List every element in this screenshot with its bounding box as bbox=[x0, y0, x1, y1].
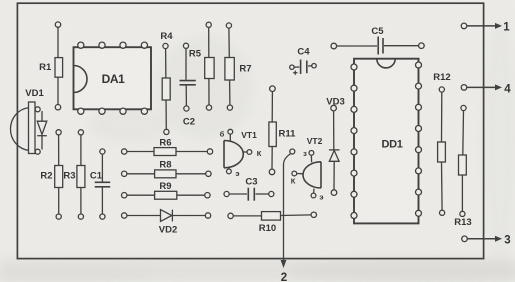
DD1 right pads bbox=[416, 62, 422, 216]
resistor R3 bbox=[63, 130, 84, 220]
resistor R11 bbox=[269, 86, 296, 175]
op-amp IC DA1 bbox=[74, 47, 152, 109]
digital IC DD1 bbox=[354, 59, 419, 224]
photodiode VD1 bbox=[10, 88, 46, 154]
resistor R12 bbox=[433, 72, 450, 215]
DA1 top pads bbox=[78, 42, 148, 48]
resistor R1 bbox=[39, 22, 62, 110]
wire to pin 2 with pad bbox=[281, 149, 295, 282]
DD1 left pads bbox=[351, 64, 357, 219]
resistor R4 bbox=[160, 31, 173, 134]
capacitor C2 bbox=[180, 43, 196, 127]
resistor R7 bbox=[225, 23, 252, 110]
DA1 bottom pads bbox=[78, 108, 148, 114]
pad 4 with arrow bbox=[461, 84, 511, 96]
pad 1 with arrow bbox=[461, 22, 510, 34]
resistor R5 bbox=[189, 22, 214, 110]
capacitor C3 bbox=[224, 177, 274, 201]
resistor R8 bbox=[122, 160, 212, 178]
capacitor C4 bbox=[290, 47, 317, 75]
transistor VT2 bbox=[291, 136, 324, 202]
diode VD3 bbox=[326, 97, 344, 196]
diode VD2 bbox=[122, 210, 211, 236]
resistor R2 bbox=[40, 130, 62, 220]
pad 3 with arrow bbox=[462, 234, 511, 246]
capacitor C1 bbox=[90, 149, 110, 219]
resistor R10 bbox=[228, 212, 317, 234]
resistor R6 bbox=[122, 138, 213, 156]
resistor R13 bbox=[454, 105, 471, 228]
capacitor C5 bbox=[331, 26, 424, 55]
transistor VT1 bbox=[220, 129, 262, 178]
resistor R9 bbox=[122, 181, 211, 199]
